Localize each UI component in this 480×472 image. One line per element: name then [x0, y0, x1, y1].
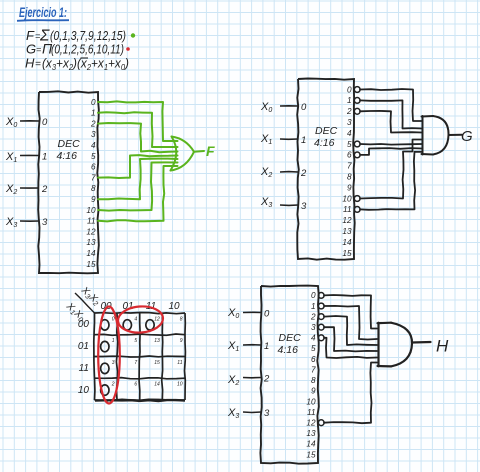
svg-text:10: 10: [78, 385, 90, 396]
karnaugh map grid: [94, 313, 186, 401]
svg-text:8: 8: [91, 184, 96, 193]
svg-text:8: 8: [311, 376, 316, 385]
decoder U1 input pin 1 wire from X1: [20, 154, 39, 156]
svg-text:11: 11: [177, 360, 182, 366]
svg-text:3: 3: [347, 118, 352, 127]
svg-text:12: 12: [154, 317, 160, 323]
svg-text:2: 2: [90, 119, 96, 128]
wire decoder U2 output 0 to AND gate: [360, 89, 422, 121]
svg-text:1: 1: [311, 302, 316, 311]
svg-text:2: 2: [300, 168, 307, 179]
decoder U3 input pin 3 wire from X3: [243, 411, 261, 414]
inverter bubble U3 output 12: [318, 420, 324, 426]
svg-text:10: 10: [177, 382, 183, 388]
svg-text:12: 12: [306, 419, 316, 428]
wire decoder U3 output 2 to AND gate: [324, 316, 377, 345]
wire decoder U1 output 10 to OR gate: [98, 162, 178, 210]
svg-text:10: 10: [306, 397, 316, 406]
equation G product of maxterms: [26, 41, 124, 57]
wire decoder U2 output 1 to AND gate: [360, 100, 422, 128]
wire decoder U1 output 2 to OR gate: [98, 123, 178, 152]
svg-text:8: 8: [180, 317, 183, 323]
svg-text:4: 4: [134, 317, 137, 323]
wire decoder U3 output 3 to AND gate: [324, 327, 377, 351]
svg-text:1: 1: [42, 152, 47, 163]
svg-text:14: 14: [86, 249, 96, 258]
inverter bubble U2 output 11: [354, 207, 360, 213]
decoder U2 input pin 3 wire from X3: [280, 204, 298, 206]
svg-text:14: 14: [342, 238, 352, 247]
svg-text:14: 14: [306, 440, 316, 449]
decoder U2 label DEC 4:16: [314, 125, 338, 149]
karnaugh map diagonal divider: [75, 293, 95, 313]
svg-text:11: 11: [307, 408, 316, 417]
svg-text:2: 2: [310, 312, 316, 321]
svg-text:6: 6: [347, 151, 352, 160]
inverter bubble U2 output 0: [354, 87, 360, 93]
svg-text:F: F: [206, 143, 215, 159]
svg-text:DEC: DEC: [58, 138, 81, 150]
svg-text:H: H: [25, 56, 35, 71]
decoder U3 input pin 1 wire from X1: [243, 344, 261, 346]
svg-text:(0,1,2,5,6,10,11): (0,1,2,5,6,10,11): [51, 42, 124, 57]
svg-text:4: 4: [91, 141, 96, 150]
wire decoder U2 output 11 to AND gate: [360, 152, 422, 210]
inverter bubble U2 output 5: [354, 141, 360, 147]
kmap red group column 00: [98, 307, 120, 404]
inverter bubble U2 output 2: [354, 108, 360, 114]
svg-text:1: 1: [112, 338, 115, 344]
decoder U2 input pin 1 wire from X1: [280, 138, 298, 140]
wire decoder U3 output 4 to AND gate: [324, 338, 377, 358]
svg-text:0: 0: [311, 291, 316, 300]
decoder U2 input pin 0 wire from X0: [280, 105, 298, 107]
inverter bubble U2 output 6: [354, 152, 360, 158]
wire decoder U2 output 5 to AND gate: [360, 143, 422, 146]
svg-text:8: 8: [347, 173, 352, 182]
svg-text:2: 2: [263, 374, 270, 385]
svg-text:1: 1: [301, 135, 306, 146]
and-gate H: [378, 323, 431, 367]
svg-text:10: 10: [342, 194, 352, 203]
svg-text:2: 2: [111, 382, 115, 388]
svg-text:3: 3: [91, 130, 96, 139]
svg-text:5: 5: [311, 344, 316, 353]
svg-text:2: 2: [41, 184, 48, 195]
svg-text:1: 1: [347, 96, 352, 105]
svg-text:14: 14: [154, 382, 160, 388]
svg-text:0: 0: [264, 309, 270, 320]
svg-text:4: 4: [347, 129, 352, 138]
svg-text:3: 3: [112, 360, 115, 366]
inverter bubble U3 output 4: [318, 335, 324, 341]
svg-text:7: 7: [91, 173, 96, 182]
svg-text:7: 7: [311, 366, 316, 375]
kmap red group cells 4 and 12: [117, 305, 164, 334]
svg-text:0: 0: [42, 117, 48, 128]
decoder U2 input pin 2 wire from X2: [280, 171, 298, 173]
decoder U1 label DEC 4:16: [57, 138, 81, 162]
equation F sum of minterms: [26, 28, 126, 45]
svg-text:11: 11: [87, 217, 96, 226]
inverter bubble U2 output 10: [354, 196, 360, 202]
svg-text:01: 01: [78, 341, 89, 352]
svg-text:5: 5: [347, 140, 352, 149]
svg-text:10: 10: [168, 301, 180, 312]
wire decoder U2 output 10 to AND gate: [360, 140, 422, 199]
svg-text:Ejercicio 1:: Ejercicio 1:: [19, 5, 67, 20]
svg-text:G: G: [26, 42, 36, 57]
svg-text:13: 13: [342, 227, 352, 236]
svg-text:4:16: 4:16: [57, 150, 78, 162]
green dot marker: [131, 33, 135, 37]
or-gate F: [171, 137, 205, 171]
decoder U3 box: [260, 286, 318, 464]
decoder U1 box: [38, 91, 99, 273]
decoder U2 box: [297, 79, 355, 260]
red dot marker: [126, 47, 130, 51]
svg-text:13: 13: [306, 429, 316, 438]
decoder U1 input pin 0 wire from X0: [20, 120, 39, 122]
svg-text:13: 13: [154, 338, 160, 344]
title Ejercicio 1: [17, 5, 69, 21]
svg-text:=: =: [36, 45, 41, 55]
svg-text:4:16: 4:16: [278, 344, 299, 356]
inverter bubble U3 output 1: [318, 303, 324, 309]
svg-text:DEC: DEC: [315, 125, 338, 137]
svg-text:13: 13: [86, 238, 96, 247]
svg-text:12: 12: [342, 216, 352, 225]
svg-text:6: 6: [91, 163, 96, 172]
wire decoder U2 output 6 to AND gate: [360, 148, 422, 155]
kmap bottom edge overdraw: [95, 399, 185, 402]
svg-text:G: G: [461, 128, 473, 145]
wire decoder U1 output 1 to OR gate: [98, 112, 178, 147]
svg-text:1: 1: [264, 341, 269, 352]
svg-text:15: 15: [342, 249, 352, 258]
svg-text:12: 12: [86, 227, 96, 236]
svg-text:6: 6: [311, 355, 316, 364]
decoder U3 label DEC 4:16: [278, 332, 302, 356]
svg-text:6: 6: [134, 382, 137, 388]
svg-text:0: 0: [347, 85, 352, 94]
wire decoder U3 output 1 to AND gate: [324, 306, 377, 340]
inverter bubble U3 output 3: [318, 324, 324, 330]
wire decoder U3 output 12 to AND gate: [324, 363, 377, 424]
svg-text:4:16: 4:16: [314, 137, 335, 149]
decoder U2 output numbers 0-15: [342, 85, 352, 257]
svg-text:0: 0: [301, 102, 307, 113]
svg-text:3: 3: [42, 217, 48, 228]
decoder U1 input pin 2 wire from X2: [20, 187, 39, 189]
equation H: [25, 56, 129, 73]
decoder U3 output numbers 0-15: [306, 291, 316, 459]
decoder U1 output numbers 0-15: [86, 98, 96, 269]
svg-text:2: 2: [346, 107, 352, 116]
svg-text:9: 9: [347, 183, 352, 192]
svg-text:0: 0: [91, 98, 96, 107]
and-gate G: [422, 116, 463, 155]
svg-text:DEC: DEC: [279, 332, 302, 344]
svg-text:5: 5: [134, 338, 137, 344]
svg-text:3: 3: [264, 408, 270, 419]
svg-text:1: 1: [91, 109, 96, 118]
svg-text:11: 11: [79, 363, 89, 374]
wire decoder U1 output 11 to OR gate: [98, 166, 178, 221]
svg-text:9: 9: [91, 195, 96, 204]
inverter bubble U3 output 0: [318, 293, 324, 299]
svg-text:5: 5: [91, 152, 96, 161]
svg-text:15: 15: [154, 360, 160, 366]
inverter bubble U3 output 2: [318, 314, 324, 320]
svg-text:0: 0: [112, 317, 115, 323]
decoder U3 input pin 0 wire from X0: [243, 311, 261, 313]
decoder U1 input pin 3 wire from X3: [20, 220, 39, 222]
wire decoder U3 output 0 to AND gate: [324, 295, 377, 329]
svg-text:4: 4: [311, 334, 316, 343]
svg-text:3: 3: [311, 323, 316, 332]
svg-text:9: 9: [311, 387, 316, 396]
svg-text:00: 00: [78, 319, 90, 330]
decoder U3 input pin 2 wire from X2: [243, 377, 261, 379]
wire decoder U2 output 2 to AND gate: [360, 111, 422, 133]
wire decoder U1 output 9 to OR gate: [98, 159, 178, 200]
svg-text:=: =: [35, 59, 41, 70]
svg-text:7: 7: [347, 162, 352, 171]
svg-text:11: 11: [343, 205, 352, 214]
svg-text:9: 9: [180, 338, 183, 344]
wire decoder U1 output 0 to OR gate: [98, 101, 178, 141]
svg-text:7: 7: [134, 360, 137, 366]
svg-text:10: 10: [86, 206, 96, 215]
kmap zero entries: [101, 320, 109, 330]
wire decoder U1 output 7 to OR gate: [98, 155, 178, 178]
svg-text:3: 3: [301, 201, 307, 212]
svg-text:H: H: [436, 337, 449, 356]
inverter bubble U2 output 1: [354, 98, 360, 104]
svg-text:15: 15: [86, 260, 96, 269]
svg-text:15: 15: [306, 450, 316, 459]
